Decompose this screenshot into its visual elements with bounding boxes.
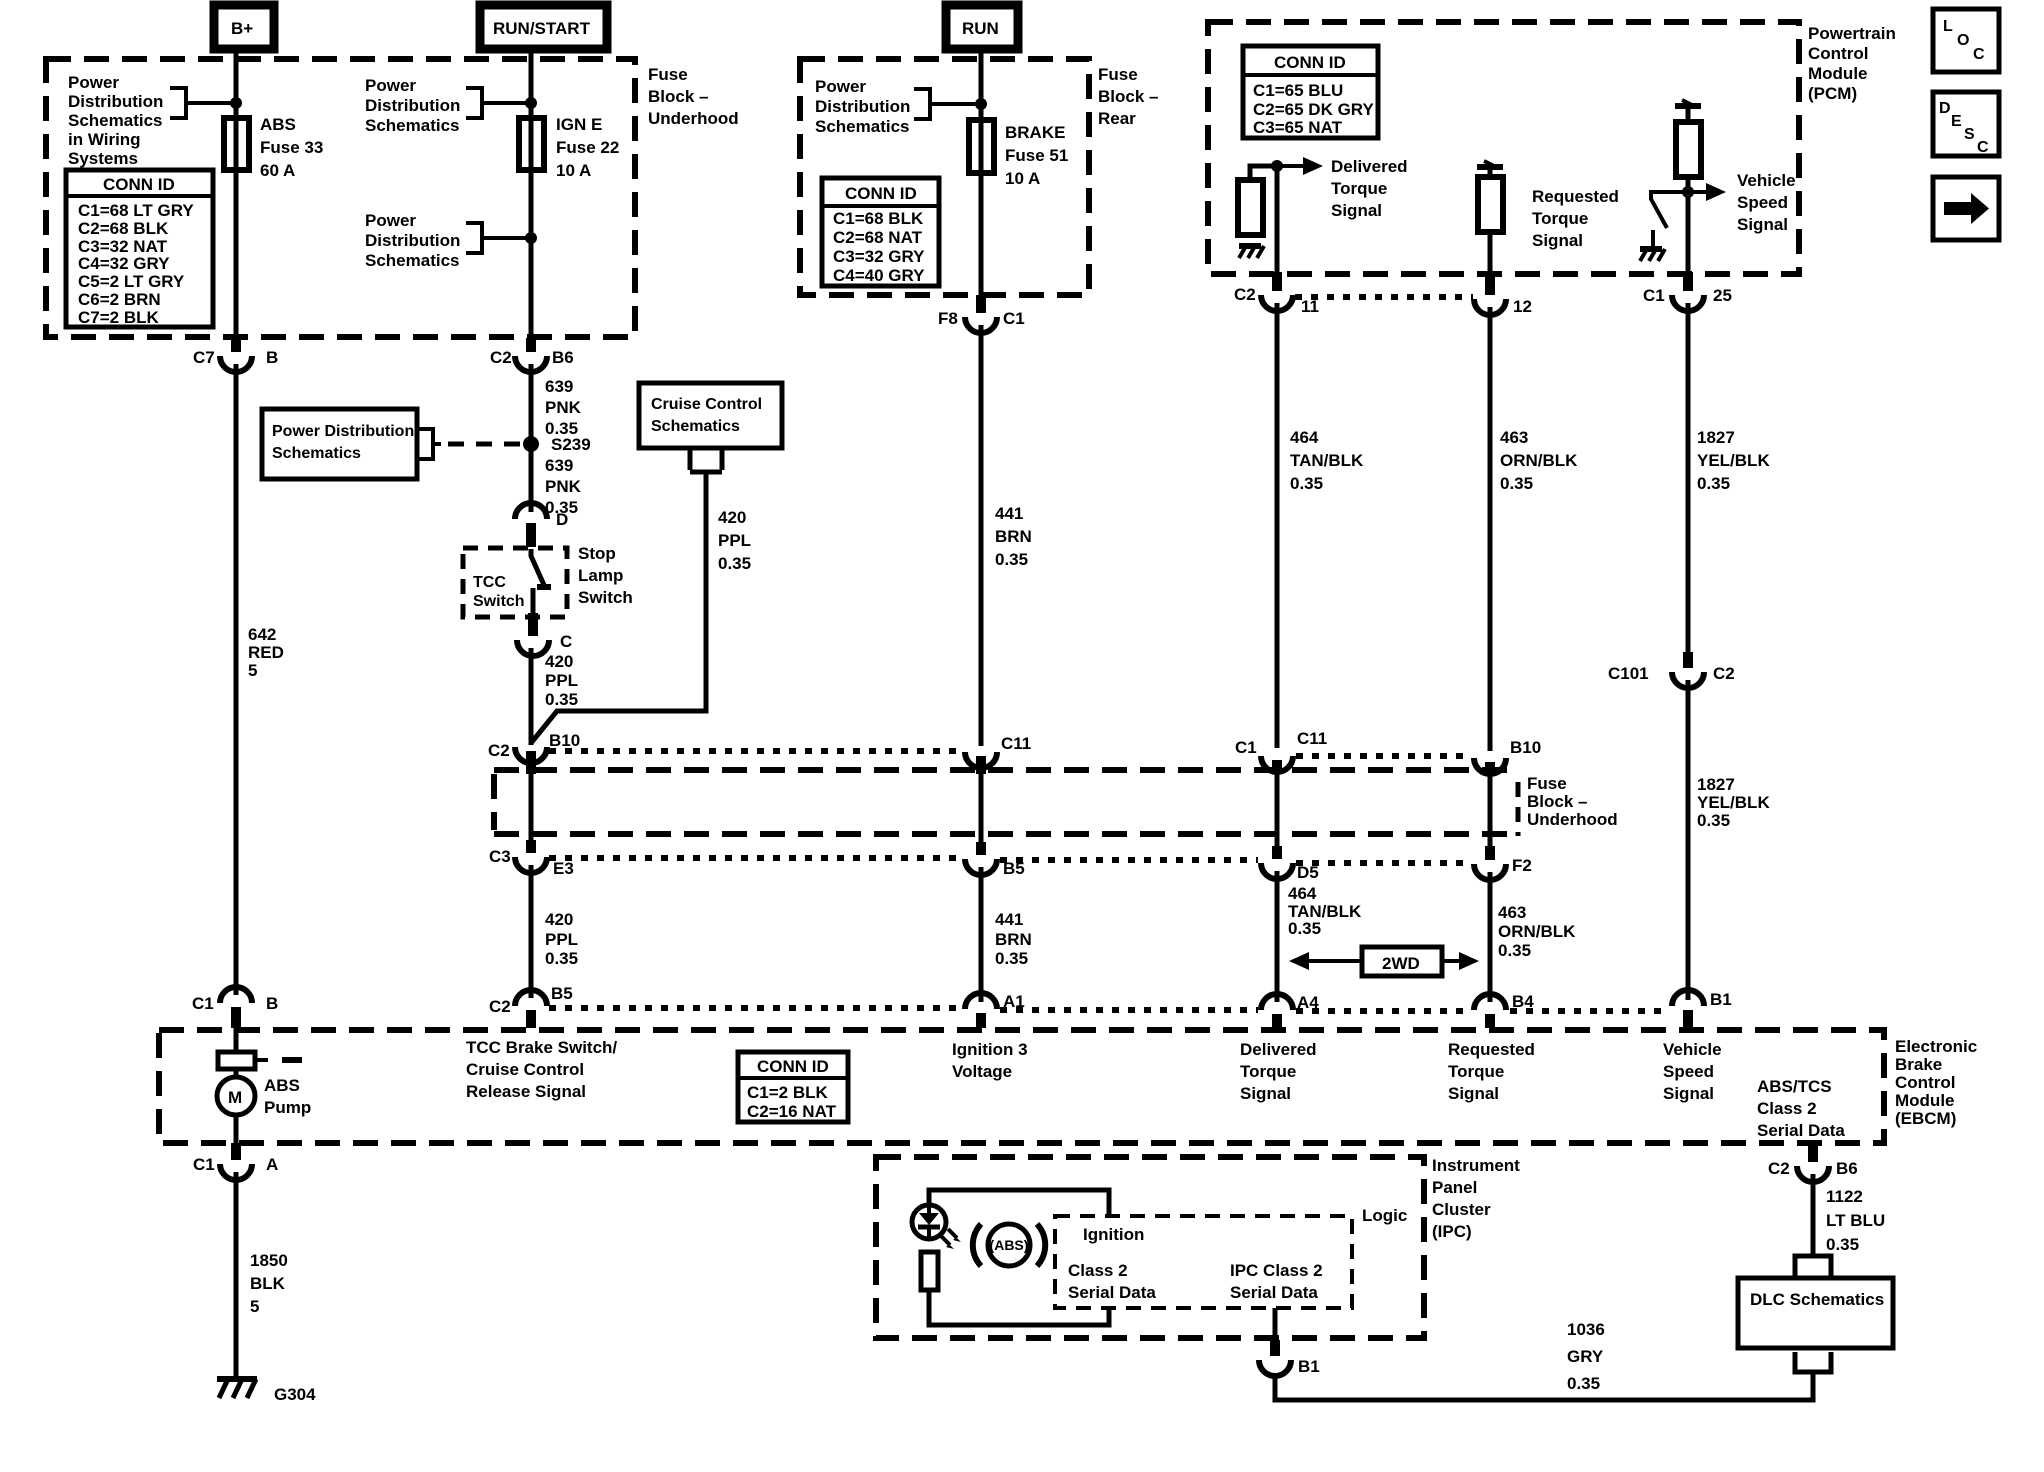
svg-text:ABS/TCS: ABS/TCS: [1757, 1077, 1832, 1096]
svg-text:0.35: 0.35: [1498, 941, 1531, 960]
svg-text:Serial Data: Serial Data: [1068, 1283, 1156, 1302]
svg-text:PNK: PNK: [545, 398, 582, 417]
svg-text:C1=2 BLK: C1=2 BLK: [747, 1083, 828, 1102]
svg-text:C2: C2: [1234, 285, 1256, 304]
svg-text:Fuse 33: Fuse 33: [260, 138, 323, 157]
connector cavity F2 (fuse block underhood exit, col E): [1474, 846, 1532, 880]
svg-text:Power: Power: [365, 211, 416, 230]
label: 1827 YEL/BLK 0.35 (upper): [1697, 428, 1770, 493]
svg-text:RUN: RUN: [962, 19, 999, 38]
svg-text:463: 463: [1498, 903, 1526, 922]
svg-text:Electronic: Electronic: [1895, 1037, 1977, 1056]
connector C7 cavity B (fuse block exit): [193, 338, 278, 372]
svg-text:0.35: 0.35: [1567, 1374, 1600, 1393]
svg-text:E3: E3: [553, 859, 574, 878]
connector C1 cavity A (EBCM exit, col A): [193, 1143, 278, 1180]
label: Instrument Panel Cluster (IPC): [1432, 1156, 1520, 1241]
wire through fuse block band (col B): [529, 774, 534, 840]
switch blade (stop lamp switch): [531, 549, 551, 613]
label: 420 PPL 0.35 (below switch): [545, 652, 578, 709]
wire 464 TAN/BLK 0.35 (col D lower): [1275, 871, 1280, 1002]
svg-text:0.35: 0.35: [1290, 474, 1323, 493]
svg-text:D: D: [1939, 100, 1951, 117]
svg-text:C2: C2: [488, 741, 510, 760]
junction: column B / callout 2: [525, 232, 537, 244]
label: 1850 BLK 5: [250, 1251, 288, 1316]
label: Class 2 Serial Data (IPC): [1068, 1261, 1156, 1302]
junction: vehicle speed node: [1682, 186, 1694, 198]
label: Electronic Brake Control Module (EBCM): [1895, 1037, 1977, 1128]
label: 463 ORN/BLK 0.35 (lower): [1498, 903, 1576, 960]
svg-text:Signal: Signal: [1240, 1084, 1291, 1103]
svg-text:441: 441: [995, 910, 1023, 929]
svg-text:Logic: Logic: [1362, 1206, 1407, 1225]
callout: Power Distribution Schematics (RUN): [815, 77, 981, 136]
svg-text:Fuse: Fuse: [1098, 65, 1138, 84]
svg-text:420: 420: [545, 910, 573, 929]
svg-text:B10: B10: [1510, 738, 1541, 757]
wire through fuse block band (col E): [1488, 776, 1493, 846]
connector C3 cavity E3 (fuse block underhood exit): [489, 840, 574, 878]
CONN ID table (fuse block rear): [822, 178, 939, 286]
svg-text:B: B: [266, 348, 278, 367]
wire 441 BRN 0.35 (column C middle): [979, 325, 984, 746]
svg-text:Cluster: Cluster: [1432, 1200, 1491, 1219]
svg-text:Cruise Control: Cruise Control: [651, 396, 762, 413]
connector cavity B1 (EBCM entry, col F): [1672, 990, 1732, 1028]
svg-text:Control: Control: [1808, 44, 1868, 63]
junction: B+ wire / callout: [230, 97, 242, 109]
svg-text:C2: C2: [1713, 664, 1735, 683]
EBCM CONN ID table: [738, 1052, 848, 1122]
PCM vehicle speed T-bar: [1675, 100, 1701, 106]
label: 463 ORN/BLK 0.35 (upper): [1500, 428, 1578, 493]
svg-text:PPL: PPL: [545, 930, 578, 949]
svg-text:420: 420: [545, 652, 573, 671]
svg-text:639: 639: [545, 456, 573, 475]
dashed box: fuse block underhood (middle band): [494, 770, 1518, 836]
svg-text:C: C: [560, 632, 572, 651]
svg-text:1036: 1036: [1567, 1320, 1605, 1339]
label: 441 BRN 0.35 (lower): [995, 910, 1032, 968]
IPC lamp circuit loop wire: [929, 1190, 1109, 1325]
label: Delivered Torque Signal (EBCM): [1240, 1040, 1317, 1103]
svg-text:Panel: Panel: [1432, 1178, 1477, 1197]
ground (PCM delivered torque): [1239, 246, 1264, 258]
connector C1 cavity C11 (fuse block underhood entry, col D): [1235, 729, 1327, 774]
svg-text:Fuse 22: Fuse 22: [556, 138, 619, 157]
svg-text:BRN: BRN: [995, 527, 1032, 546]
callout: Power Distribution Schematics in Wiring Systems: [68, 73, 236, 168]
label: 1827 YEL/BLK 0.35 (lower): [1697, 775, 1770, 830]
svg-text:0.35: 0.35: [1288, 919, 1321, 938]
svg-text:TAN/BLK: TAN/BLK: [1290, 451, 1364, 470]
svg-text:Underhood: Underhood: [648, 109, 739, 128]
callout: Power Distribution Schematics (RUN/START top): [365, 76, 531, 135]
svg-text:Block –: Block –: [1527, 792, 1587, 811]
svg-text:F2: F2: [1512, 856, 1532, 875]
EBCM pump feed component (inline box): [218, 1052, 302, 1069]
svg-text:Voltage: Voltage: [952, 1062, 1012, 1081]
fuse F51: BRAKE Fuse 51 10 A: [969, 120, 994, 173]
label: 420 PPL 0.35 (cruise branch): [718, 508, 751, 573]
svg-text:B4: B4: [1512, 992, 1534, 1011]
svg-text:in Wiring: in Wiring: [68, 130, 141, 149]
svg-text:441: 441: [995, 504, 1023, 523]
wire through fuse block band (col D): [1275, 774, 1280, 846]
svg-text:Speed: Speed: [1737, 193, 1788, 212]
svg-text:60 A: 60 A: [260, 161, 295, 180]
svg-text:C6=2 BRN: C6=2 BRN: [78, 290, 161, 309]
svg-text:BRAKE: BRAKE: [1005, 123, 1065, 142]
connector cavity B10 (fuse block underhood entry, col E): [1474, 738, 1541, 776]
connector pin 12 (PCM): [1474, 276, 1532, 316]
dashed box: IPC logic: [1055, 1216, 1352, 1308]
label: ABS/TCS Class 2 Serial Data: [1757, 1077, 1845, 1140]
wire: PCM pin 12 vertical: [1488, 232, 1493, 276]
label: 1036 GRY 0.35: [1567, 1320, 1605, 1393]
svg-text:Schematics: Schematics: [365, 116, 460, 135]
svg-text:1850: 1850: [250, 1251, 288, 1270]
svg-text:B10: B10: [549, 731, 580, 750]
connector cavity D (stop lamp switch entry): [515, 503, 568, 547]
connector cavity B1 (IPC exit): [1259, 1308, 1320, 1376]
svg-text:(IPC): (IPC): [1432, 1222, 1472, 1241]
wire 464 TAN/BLK 0.35 (column D upper): [1275, 303, 1280, 748]
connector cavity C11 (fuse block underhood entry, col C): [965, 734, 1031, 774]
wire 1827 YEL/BLK 0.35 (column F upper): [1686, 303, 1691, 652]
label: 464 TAN/BLK 0.35 (upper): [1290, 428, 1364, 493]
svg-text:12: 12: [1513, 297, 1532, 316]
label: Requested Torque Signal (EBCM): [1448, 1040, 1535, 1103]
svg-text:Stop: Stop: [578, 544, 616, 563]
svg-text:D: D: [556, 510, 568, 529]
connector F8 cavity C1 (fuse block rear exit): [938, 295, 1025, 333]
svg-text:Module: Module: [1895, 1091, 1955, 1110]
svg-text:CONN ID: CONN ID: [845, 184, 917, 203]
svg-text:464: 464: [1290, 428, 1319, 447]
connector C2 cavity B5 (EBCM entry, col B): [489, 984, 573, 1028]
svg-text:Fuse 51: Fuse 51: [1005, 146, 1068, 165]
svg-text:Serial Data: Serial Data: [1230, 1283, 1318, 1302]
svg-text:Signal: Signal: [1448, 1084, 1499, 1103]
svg-text:Delivered: Delivered: [1331, 157, 1408, 176]
svg-text:Distribution: Distribution: [365, 231, 460, 250]
fuse F22: IGN E Fuse 22 10 A: [519, 118, 544, 170]
svg-text:C101: C101: [1608, 664, 1649, 683]
switch (PCM vehicle speed): [1651, 192, 1688, 247]
PCM CONN ID table: [1243, 46, 1378, 138]
arrow legend box: [1933, 177, 1999, 240]
svg-text:Schematics: Schematics: [68, 111, 163, 130]
svg-text:C1: C1: [193, 1155, 215, 1174]
IPC lamp resistor: [921, 1252, 938, 1290]
svg-text:Lamp: Lamp: [578, 566, 623, 585]
svg-text:0.35: 0.35: [545, 949, 578, 968]
dashed box: Instrument Panel Cluster (IPC): [876, 1157, 1424, 1338]
svg-text:C3=65 NAT: C3=65 NAT: [1253, 118, 1343, 137]
svg-text:TCC: TCC: [473, 574, 506, 591]
label: 639 PNK 0.35 (above S239): [545, 377, 582, 438]
label: Delivered Torque Signal (PCM): [1331, 157, 1408, 220]
svg-text:464: 464: [1288, 884, 1317, 903]
svg-text:C7=2 BLK: C7=2 BLK: [78, 308, 159, 327]
svg-text:5: 5: [250, 1297, 259, 1316]
wire: B+ feed vertical (column A upper): [234, 49, 239, 340]
svg-text:B: B: [266, 994, 278, 1013]
svg-text:C3: C3: [489, 847, 511, 866]
power feed box B+: [214, 5, 274, 49]
svg-text:0.35: 0.35: [1500, 474, 1533, 493]
svg-text:C5=2 LT GRY: C5=2 LT GRY: [78, 272, 185, 291]
svg-text:B1: B1: [1710, 990, 1732, 1009]
dotted connector body line: PCM C2 pins 11-12: [1295, 294, 1473, 300]
svg-text:YEL/BLK: YEL/BLK: [1697, 451, 1770, 470]
svg-text:PPL: PPL: [718, 531, 751, 550]
svg-text:Ignition 3: Ignition 3: [952, 1040, 1028, 1059]
svg-text:Module: Module: [1808, 64, 1868, 83]
connector cavity B4 (EBCM entry, col E): [1474, 992, 1534, 1028]
label: Stop Lamp Switch: [578, 544, 633, 607]
connector cavity A1 (EBCM entry, col C): [965, 992, 1025, 1028]
svg-text:PPL: PPL: [545, 671, 578, 690]
svg-text:Torque: Torque: [1240, 1062, 1296, 1081]
svg-text:S239: S239: [551, 435, 591, 454]
svg-text:0.35: 0.35: [718, 554, 751, 573]
svg-text:25: 25: [1713, 286, 1732, 305]
svg-text:0.35: 0.35: [1697, 811, 1730, 830]
svg-text:2WD: 2WD: [1382, 954, 1420, 973]
svg-text:(EBCM): (EBCM): [1895, 1109, 1956, 1128]
ground (PCM vehicle speed): [1640, 249, 1665, 261]
svg-text:C1=68 BLK: C1=68 BLK: [833, 209, 924, 228]
svg-text:C1: C1: [1235, 738, 1257, 757]
power feed box RUN: [946, 5, 1018, 49]
label: Vehicle Speed Signal (EBCM): [1663, 1040, 1722, 1103]
callout box: Power Distribution Schematics (S239): [262, 409, 522, 479]
svg-text:ABS: ABS: [260, 115, 296, 134]
wire 463 ORN/BLK 0.35 (column E upper): [1488, 307, 1493, 751]
arrow: delivered torque signal: [1277, 164, 1305, 168]
label: 441 BRN 0.35 (upper): [995, 504, 1032, 569]
label: Requested Torque Signal (PCM): [1532, 187, 1619, 250]
wire 420 PPL 0.35 (below switch): [529, 648, 534, 745]
svg-text:RED: RED: [248, 643, 284, 662]
svg-text:Torque: Torque: [1448, 1062, 1504, 1081]
svg-text:YEL/BLK: YEL/BLK: [1697, 793, 1770, 812]
wire 1122 LT BLU 0.35: [1811, 1174, 1816, 1254]
svg-text:Underhood: Underhood: [1527, 810, 1618, 829]
svg-text:C4=40 GRY: C4=40 GRY: [833, 266, 925, 285]
label: IPC Class 2 Serial Data: [1230, 1261, 1323, 1302]
label: Fuse Block - Underhood: [648, 65, 739, 128]
svg-text:1827: 1827: [1697, 775, 1735, 794]
svg-text:Rear: Rear: [1098, 109, 1136, 128]
label: TCC Switch: [473, 574, 525, 610]
svg-text:Vehicle: Vehicle: [1663, 1040, 1722, 1059]
callout box: DLC Schematics: [1738, 1278, 1893, 1348]
svg-text:Signal: Signal: [1532, 231, 1583, 250]
svg-text:Requested: Requested: [1448, 1040, 1535, 1059]
svg-text:Power: Power: [365, 76, 416, 95]
wire 1827 YEL/BLK 0.35 (column F lower): [1686, 680, 1691, 1000]
svg-text:G304: G304: [274, 1385, 316, 1404]
svg-text:Power Distribution: Power Distribution: [272, 423, 414, 440]
svg-text:C2: C2: [1768, 1159, 1790, 1178]
svg-text:C7: C7: [193, 348, 215, 367]
label: 642 RED 5: [248, 625, 284, 680]
arrow: vehicle speed signal: [1688, 190, 1708, 194]
svg-text:B6: B6: [552, 348, 574, 367]
svg-text:Delivered: Delivered: [1240, 1040, 1317, 1059]
label: 1122 LT BLU 0.35: [1826, 1187, 1885, 1254]
svg-text:B6: B6: [1836, 1159, 1858, 1178]
svg-text:C2=68 BLK: C2=68 BLK: [78, 219, 169, 238]
label: 464 TAN/BLK 0.35 (lower): [1288, 884, 1362, 938]
connector C2 cavity B6 (EBCM exit, col F): [1768, 1143, 1858, 1182]
svg-text:C2=68 NAT: C2=68 NAT: [833, 228, 923, 247]
label: Powertrain Control Module (PCM): [1808, 24, 1896, 103]
svg-text:GRY: GRY: [1567, 1347, 1604, 1366]
svg-text:CONN ID: CONN ID: [1274, 53, 1346, 72]
connector C2 cavity B6 (fuse block exit): [490, 338, 574, 372]
label: TCC Brake Switch / Cruise Control Release Signal: [466, 1038, 617, 1101]
svg-text:Fuse: Fuse: [1527, 774, 1567, 793]
wire 420 PPL 0.35 branch from cruise control: [531, 472, 706, 743]
junction: delivered torque node: [1271, 160, 1283, 172]
svg-text:1827: 1827: [1697, 428, 1735, 447]
wire inside EBCM (col A): [234, 1028, 239, 1143]
svg-text:LT BLU: LT BLU: [1826, 1211, 1885, 1230]
svg-text:C2=65 DK GRY: C2=65 DK GRY: [1253, 100, 1374, 119]
svg-text:C11: C11: [1001, 734, 1031, 753]
svg-text:10 A: 10 A: [556, 161, 591, 180]
svg-text:F8: F8: [938, 309, 958, 328]
wire: PCM pin 11 vertical: [1275, 166, 1280, 272]
svg-text:E: E: [1951, 113, 1962, 130]
svg-text:Block –: Block –: [648, 87, 708, 106]
PCM requested torque T-bar: [1477, 161, 1503, 167]
power feed box RUN/START: [480, 5, 607, 49]
svg-text:Schematics: Schematics: [272, 445, 361, 462]
PCM requested torque resistor: [1478, 167, 1503, 232]
svg-text:Switch: Switch: [473, 593, 525, 610]
svg-text:Class 2: Class 2: [1068, 1261, 1128, 1280]
wire 441 BRN 0.35 (col C lower): [979, 867, 984, 1002]
label: Vehicle Speed Signal (PCM): [1737, 171, 1796, 234]
svg-text:A4: A4: [1297, 993, 1319, 1012]
svg-text:ORN/BLK: ORN/BLK: [1498, 922, 1576, 941]
svg-text:C2: C2: [489, 997, 511, 1016]
svg-text:Release Signal: Release Signal: [466, 1082, 586, 1101]
off-page bracket above DLC box: [1795, 1256, 1831, 1276]
IPC indicator lamp (LED): [912, 1205, 961, 1249]
label: 639 PNK 0.35 (below S239): [545, 456, 582, 517]
svg-text:Distribution: Distribution: [815, 97, 910, 116]
dashed box: stop lamp switch: [463, 548, 567, 617]
svg-text:TCC Brake Switch/: TCC Brake Switch/: [466, 1038, 617, 1057]
svg-text:PNK: PNK: [545, 477, 582, 496]
svg-text:IGN E: IGN E: [556, 115, 602, 134]
svg-text:420: 420: [718, 508, 746, 527]
svg-text:Distribution: Distribution: [68, 92, 163, 111]
connector cavity D5 (fuse block underhood exit, col D): [1261, 846, 1319, 882]
wire: RUN feed vertical (column C upper): [979, 49, 984, 297]
wire through fuse block band (col C): [979, 774, 984, 842]
svg-text:B5: B5: [551, 984, 573, 1003]
svg-text:0.35: 0.35: [995, 550, 1028, 569]
LOC legend box: [1933, 9, 1999, 72]
ABS telltale icon: [973, 1224, 1045, 1266]
svg-text:Schematics: Schematics: [815, 117, 910, 136]
svg-text:CONN ID: CONN ID: [757, 1057, 829, 1076]
callout: Power Distribution Schematics (RUN/START lower): [365, 211, 531, 270]
dashed box: Fuse Block - Rear: [800, 59, 1089, 295]
svg-text:0.35: 0.35: [1826, 1235, 1859, 1254]
svg-text:BRN: BRN: [995, 930, 1032, 949]
svg-text:Cruise Control: Cruise Control: [466, 1060, 584, 1079]
svg-text:IPC Class 2: IPC Class 2: [1230, 1261, 1323, 1280]
junction: column C / callout: [975, 98, 987, 110]
PCM delivered torque driver resistor: [1238, 166, 1277, 235]
svg-text:10 A: 10 A: [1005, 169, 1040, 188]
svg-text:0.35: 0.35: [1697, 474, 1730, 493]
dashed box: Fuse Block - Underhood (top left): [46, 59, 635, 337]
junction: column B / callout 1: [525, 97, 537, 109]
svg-text:0.35: 0.35: [995, 949, 1028, 968]
PCM vehicle speed resistor: [1676, 106, 1701, 177]
svg-text:Systems: Systems: [68, 149, 138, 168]
svg-text:C2=16 NAT: C2=16 NAT: [747, 1102, 837, 1121]
svg-text:A1: A1: [1003, 992, 1025, 1011]
wire 1036 GRY 0.35 (B1 to DLC): [1275, 1372, 1813, 1400]
svg-text:C3=32 GRY: C3=32 GRY: [833, 247, 925, 266]
fuse F33: ABS Fuse 33 60 A: [224, 118, 249, 170]
svg-text:Serial Data: Serial Data: [1757, 1121, 1845, 1140]
motor M: ABS Pump: [217, 1076, 311, 1117]
svg-text:(ABS): (ABS): [990, 1237, 1029, 1253]
wire 463 ORN/BLK 0.35 (col E lower): [1488, 872, 1493, 1002]
svg-text:Control: Control: [1895, 1073, 1955, 1092]
svg-text:ORN/BLK: ORN/BLK: [1500, 451, 1578, 470]
wire 639 PNK 0.35 upper: [529, 364, 534, 512]
connector C1 cavity B (EBCM entry, col A): [192, 987, 278, 1028]
wire 642 RED 5 (column A middle): [234, 364, 239, 995]
dashed box: Electronic Brake Control Module (EBCM): [159, 1030, 1884, 1143]
label: Fuse Block - Underhood (middle band): [1527, 774, 1618, 829]
svg-text:Block –: Block –: [1098, 87, 1158, 106]
svg-text:(PCM): (PCM): [1808, 84, 1857, 103]
svg-text:Signal: Signal: [1331, 201, 1382, 220]
svg-text:Instrument: Instrument: [1432, 1156, 1520, 1175]
connector cavity C (stop lamp switch exit): [517, 613, 572, 656]
svg-text:BLK: BLK: [250, 1274, 286, 1293]
connector cavity B5 (fuse block underhood exit, col C): [965, 842, 1025, 878]
ground G304: [217, 1379, 316, 1404]
svg-text:Vehicle: Vehicle: [1737, 171, 1796, 190]
wire: PCM pin 25 vertical: [1686, 177, 1691, 272]
svg-text:C: C: [1977, 139, 1989, 156]
callout box: Cruise Control Schematics: [639, 383, 782, 448]
svg-text:Powertrain: Powertrain: [1808, 24, 1896, 43]
dotted connector body line: EBCM top B5-A1-A4-B4-B1: [549, 1008, 1668, 1011]
DESC legend box: [1933, 92, 1999, 156]
svg-text:S: S: [1964, 126, 1975, 143]
svg-text:Switch: Switch: [578, 588, 633, 607]
svg-text:RUN/START: RUN/START: [493, 19, 591, 38]
svg-text:Torque: Torque: [1331, 179, 1387, 198]
label: Ignition 3 Voltage: [952, 1040, 1028, 1081]
